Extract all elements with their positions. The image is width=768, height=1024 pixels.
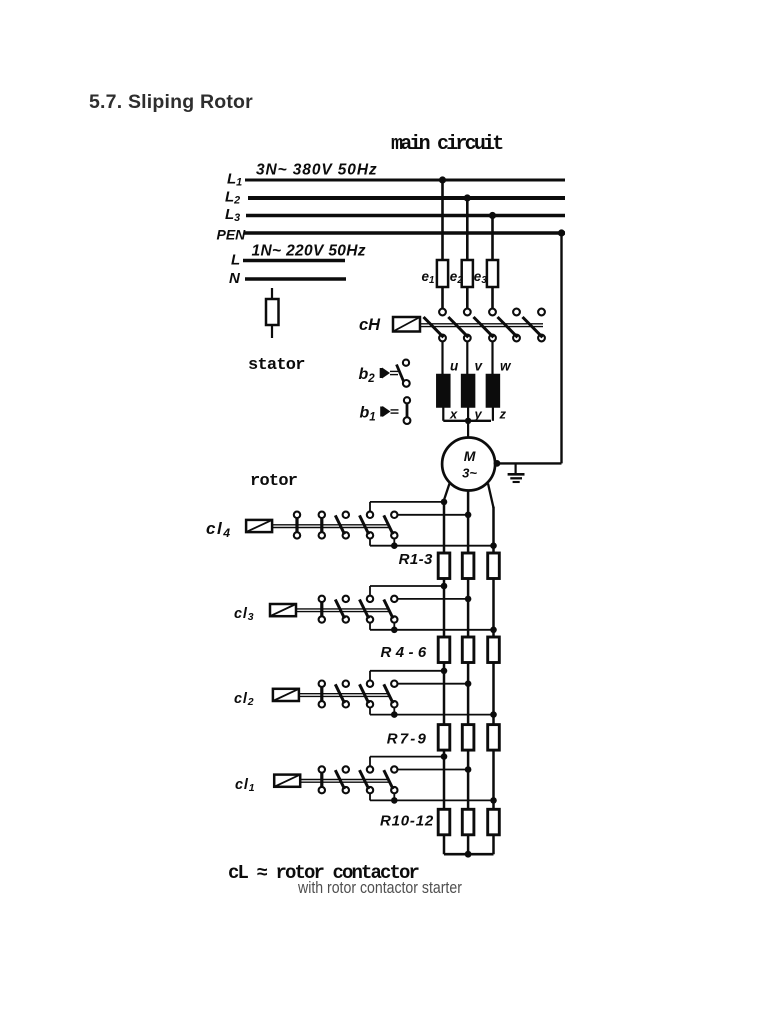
svg-text:R7-9: R7-9 bbox=[387, 730, 428, 747]
svg-text:e3: e3 bbox=[474, 269, 488, 286]
svg-text:M: M bbox=[464, 448, 476, 464]
svg-text:w: w bbox=[500, 359, 512, 374]
svg-text:3N~ 380V 50Hz: 3N~ 380V 50Hz bbox=[256, 162, 378, 179]
svg-text:L2: L2 bbox=[225, 189, 240, 207]
svg-text:b2: b2 bbox=[359, 366, 376, 385]
svg-text:L: L bbox=[231, 252, 240, 269]
svg-text:x: x bbox=[449, 407, 458, 422]
svg-text:3~: 3~ bbox=[462, 466, 477, 481]
svg-text:rotor: rotor bbox=[250, 472, 297, 491]
svg-text:R10-12: R10-12 bbox=[380, 813, 434, 830]
svg-text:u: u bbox=[450, 359, 459, 374]
svg-text:R4-6: R4-6 bbox=[380, 644, 430, 661]
svg-text:e1: e1 bbox=[422, 269, 435, 286]
svg-text:stator: stator bbox=[248, 356, 305, 375]
svg-text:L1: L1 bbox=[227, 171, 242, 189]
svg-text:1N~ 220V 50Hz: 1N~ 220V 50Hz bbox=[252, 243, 366, 260]
svg-text:cl3: cl3 bbox=[234, 606, 254, 623]
svg-text:cH: cH bbox=[359, 316, 381, 334]
svg-text:R1-3: R1-3 bbox=[399, 551, 433, 568]
svg-text:b1: b1 bbox=[360, 405, 376, 424]
svg-text:v: v bbox=[475, 359, 484, 374]
svg-text:L3: L3 bbox=[225, 206, 240, 224]
svg-text:PEN: PEN bbox=[217, 227, 247, 243]
svg-text:z: z bbox=[499, 407, 507, 422]
svg-text:y: y bbox=[474, 407, 483, 422]
svg-text:cl1: cl1 bbox=[235, 777, 255, 794]
svg-text:cl4: cl4 bbox=[206, 519, 232, 540]
svg-text:cl2: cl2 bbox=[234, 691, 254, 708]
svg-text:N: N bbox=[229, 270, 241, 287]
